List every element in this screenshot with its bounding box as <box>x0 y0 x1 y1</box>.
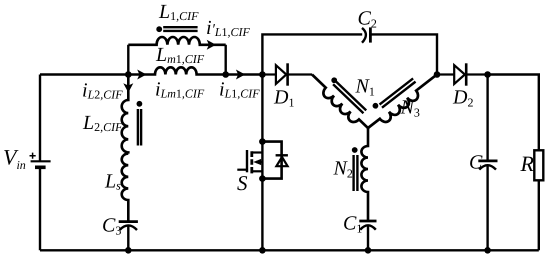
wire R to rail <box>538 180 540 250</box>
core bars of N2 <box>354 155 358 191</box>
svg-text:D2: D2 <box>452 86 473 109</box>
svg-text:L1,CIF: L1,CIF <box>158 1 199 23</box>
svg-text:Vin: Vin <box>3 145 26 173</box>
winding N3 (right Y arm) <box>358 62 441 134</box>
wire L1 loop right riser <box>224 45 226 75</box>
svg-text:D1: D1 <box>273 86 294 109</box>
junction dot C3/rail <box>125 247 132 254</box>
polarity dot of L2 <box>137 101 143 107</box>
battery Vin <box>30 153 51 168</box>
wire C to rail <box>486 165 488 250</box>
winding N2 (center leg) <box>361 128 368 221</box>
node MOSFET drain junction <box>259 138 266 145</box>
svg-text:C3: C3 <box>102 215 121 238</box>
polarity dot of N2 <box>352 147 358 153</box>
inductor Lm1,CIF on main line <box>128 67 262 74</box>
svg-text:C: C <box>469 152 483 174</box>
svg-text:iLm1,CIF: iLm1,CIF <box>155 79 205 101</box>
node C2-right junction <box>434 71 441 78</box>
body diode <box>276 155 288 166</box>
core bars of L1 <box>163 27 197 31</box>
current arrow iLm1,CIF <box>137 70 146 80</box>
wire C1 to rail <box>367 226 369 251</box>
wire output top to R <box>488 75 539 151</box>
node D1-in junction (main/C2/MOSFET) <box>259 71 266 78</box>
wire left vertical with battery gap <box>39 75 41 162</box>
wire bottom rail <box>40 249 539 251</box>
wire main top-left from Vin to node A <box>40 73 128 75</box>
svg-text:C1: C1 <box>343 213 362 236</box>
inductor Ls <box>122 154 129 221</box>
current arrow iL1,CIF <box>236 70 245 80</box>
junction dot C1/rail <box>365 247 372 254</box>
svg-text:Lm1,CIF: Lm1,CIF <box>155 44 205 66</box>
diode D2 <box>437 63 488 85</box>
svg-text:L2,CIF: L2,CIF <box>82 112 123 134</box>
inductor L2,CIF (vertical coil) <box>122 75 129 154</box>
svg-text:Ls: Ls <box>104 171 121 193</box>
svg-text:C2: C2 <box>358 8 377 31</box>
current arrow iL2,CIF (down) <box>123 83 133 92</box>
MOSFET S symbol <box>237 150 262 173</box>
svg-text:R: R <box>520 151 535 176</box>
wire C3 to rail <box>127 226 129 251</box>
capacitor C1 <box>359 221 376 230</box>
inductor L1,CIF (top branch coil) <box>128 37 225 45</box>
wire C2 loop (risers + top wire) <box>262 34 437 74</box>
core bars of L2 <box>138 109 141 146</box>
capacitor C branch <box>486 75 488 161</box>
resistor R <box>534 150 543 180</box>
junction dot MOSFET/rail <box>259 247 266 254</box>
node A junction (main line / L1 loop / L2 branch) <box>125 71 132 78</box>
svg-text:S: S <box>237 171 248 195</box>
junction dot C/rail <box>484 247 491 254</box>
polarity dot of L1 <box>156 26 162 32</box>
winding N1 (left Y arm) <box>307 64 378 133</box>
capacitor C <box>478 161 497 170</box>
diode D1 <box>262 63 312 85</box>
wire L1 loop left riser <box>127 45 129 75</box>
current arrow i'L1,CIF <box>207 40 216 50</box>
svg-text:iL1,CIF: iL1,CIF <box>219 79 260 101</box>
MOSFET S main vertical wire <box>261 75 263 251</box>
node output junction <box>484 71 491 78</box>
svg-text:iL2,CIF: iL2,CIF <box>82 80 123 102</box>
svg-text:N2: N2 <box>333 158 353 181</box>
body diode branch <box>262 142 281 179</box>
node MOSFET source junction <box>259 175 266 182</box>
node B junction (L1 loop rejoins main line) <box>222 71 229 78</box>
capacitor C3 <box>119 222 138 230</box>
svg-text:i′L1,CIF: i′L1,CIF <box>206 17 251 39</box>
MOSFET source arrow <box>253 159 261 165</box>
capacitor C2 <box>362 27 370 42</box>
svg-text:N1: N1 <box>355 76 375 99</box>
